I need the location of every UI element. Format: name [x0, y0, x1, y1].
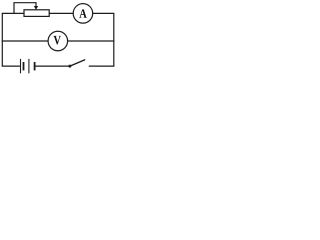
- wire right frame: [113, 13, 115, 66]
- switch S pivot dot: [68, 65, 71, 68]
- rheostat R1 body: [24, 10, 49, 17]
- wire bottom rail right: [89, 65, 115, 67]
- battery cell1 short plate: [23, 62, 25, 70]
- wire bottom rail middle: [35, 65, 70, 67]
- ammeter A label: [79, 9, 86, 17]
- wire top rail left: [2, 12, 25, 14]
- wire bottom rail left: [2, 65, 20, 67]
- wire top rail right: [93, 12, 115, 14]
- battery cell2 long plate: [28, 59, 30, 73]
- wire top rail middle: [49, 12, 73, 14]
- switch S lever: [70, 60, 85, 67]
- wire middle rail right: [68, 40, 115, 42]
- battery cell2 short plate: [34, 62, 36, 70]
- ammeter A body: [73, 4, 93, 24]
- battery cell1 long plate: [20, 59, 22, 73]
- wire left frame: [1, 13, 3, 66]
- voltmeter V label: [54, 36, 61, 45]
- wire middle rail left: [2, 40, 49, 42]
- rheostat slider riser wire: [14, 3, 36, 14]
- rheostat slider arrowhead: [34, 6, 38, 10]
- voltmeter V body: [48, 31, 68, 51]
